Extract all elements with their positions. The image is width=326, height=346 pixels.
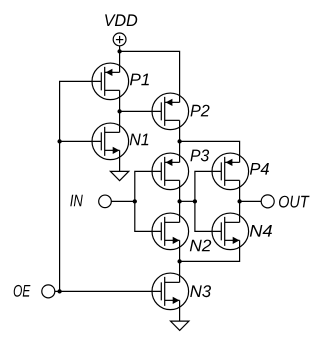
wire N1 gate branch [60, 140, 102, 142]
label N3 [190, 285, 211, 297]
transistor P4 [212, 153, 249, 190]
wire P4 drain to N4 drain [239, 180, 241, 222]
node stage2 gate junction [193, 199, 197, 203]
label VDD [105, 14, 137, 26]
terminal IN [99, 195, 112, 208]
wire VDD branch to P2 source [120, 51, 180, 102]
wire to OUT terminal [240, 200, 262, 202]
transistor P2 [152, 93, 189, 130]
wire IN to junction [111, 200, 135, 202]
ground under N1 [110, 171, 128, 180]
transistor N2 [152, 213, 189, 250]
label P4 [250, 163, 269, 175]
transistor N3 [152, 273, 189, 310]
wire P2 drain to P3 source [179, 120, 181, 162]
node P3-N2 junction [177, 199, 181, 203]
wire N3 source to ground [179, 300, 181, 321]
transistor N4 [212, 213, 249, 250]
node IN junction [133, 199, 137, 203]
label OE [14, 285, 31, 297]
node OUT junction [237, 199, 241, 203]
transistor N1 [92, 123, 129, 160]
label P3 [190, 150, 209, 162]
wire branch to N4 source [180, 240, 240, 261]
wire N1 source to ground [119, 150, 121, 171]
ground under N3 [171, 321, 189, 330]
wire P1 drain to N1 drain [119, 90, 121, 132]
label P1 [130, 74, 149, 86]
node P1-N1 junction [117, 109, 121, 113]
wire IN gate tree [135, 171, 162, 231]
node rail-N1 junction [57, 139, 61, 143]
label IN [70, 195, 83, 207]
node VDD junction [117, 49, 121, 53]
label N1 [130, 134, 149, 146]
label P2 [191, 105, 210, 117]
node OE junction [57, 289, 61, 293]
transistor P3 [152, 153, 189, 190]
wire stage1 out to stage2 gates [180, 200, 195, 202]
wire left rail P1 gate to OE [60, 81, 102, 291]
label N2 [190, 240, 211, 252]
wire stage2 gate tree [195, 171, 221, 231]
node N2-N3 junction [177, 259, 181, 263]
transistor P1 [92, 63, 129, 100]
wire P3 drain to N2 drain [179, 180, 181, 222]
wire OE to N3 gate [55, 290, 162, 292]
terminal OE [42, 285, 55, 298]
node P2-P3 junction [177, 139, 181, 143]
wire N2 source to N3 drain [179, 240, 181, 282]
label OUT [279, 196, 310, 208]
VDD terminal [113, 33, 126, 46]
terminal OUT [261, 195, 274, 208]
wire P1 drain to P2 gate [120, 110, 162, 112]
wire VDD to P1 source [119, 46, 121, 73]
label N4 [250, 225, 272, 237]
wire branch to P4 source [180, 141, 240, 162]
